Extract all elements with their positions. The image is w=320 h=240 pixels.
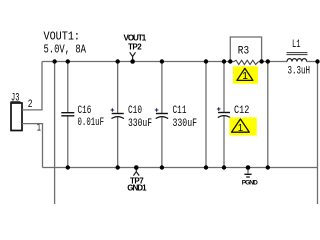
capacitor C12 (polarized) bbox=[217, 62, 249, 168]
node dot R3 left bbox=[228, 59, 232, 63]
wire vertical x=267.8 bbox=[267, 62, 269, 168]
resistor R3 bbox=[234, 46, 259, 65]
svg-text:TP2: TP2 bbox=[128, 43, 142, 52]
node dot x=267.8 bottom bbox=[266, 165, 270, 169]
svg-text:0.01uF: 0.01uF bbox=[78, 117, 105, 129]
node dot C12 bottom bbox=[222, 165, 226, 169]
test point TP2 VOUT1 bbox=[124, 34, 147, 64]
node dot x=267.8 top bbox=[266, 59, 270, 63]
test point TP7 GND1 bbox=[127, 165, 147, 193]
node dot L1 right bbox=[315, 59, 319, 63]
ground PGND bbox=[242, 165, 258, 186]
node dot C10 bottom bbox=[116, 165, 120, 169]
svg-text:GND1: GND1 bbox=[127, 184, 147, 193]
wire vertical branch going off-sheet at x=54.6 bbox=[54, 62, 56, 205]
wire top rail VOUT1 bbox=[42, 61, 318, 63]
node dot x=206 bottom bbox=[204, 165, 208, 169]
svg-text:330uF: 330uF bbox=[128, 118, 152, 130]
svg-text:C12: C12 bbox=[234, 105, 249, 117]
wire J3 pin1 to bottom rail bbox=[22, 124, 43, 168]
svg-text:330uF: 330uF bbox=[173, 118, 198, 130]
warning flag 1 at R3 (yellow highlight) bbox=[233, 66, 258, 84]
node dot top rail x=54.6 bbox=[52, 59, 56, 63]
svg-text:1: 1 bbox=[37, 123, 41, 135]
node dot C11 bottom bbox=[160, 165, 164, 169]
wire R3 bypass loop bbox=[230, 37, 261, 62]
svg-text:1: 1 bbox=[242, 71, 248, 82]
node dot x=206 top bbox=[204, 59, 208, 63]
node dot C10 top bbox=[116, 59, 120, 63]
node dot C16 bottom bbox=[66, 165, 70, 169]
svg-text:R3: R3 bbox=[238, 46, 249, 58]
wire vertical right edge x=317.5 going off-sheet bbox=[317, 62, 319, 205]
svg-text:C11: C11 bbox=[173, 105, 187, 117]
node dot C11 top bbox=[160, 59, 164, 63]
node dot C16 top bbox=[66, 59, 70, 63]
net label VOUT1: 5.0V, 8A bbox=[44, 29, 87, 56]
svg-text:L1: L1 bbox=[292, 39, 301, 51]
wire J3 pin2 to top rail bbox=[22, 62, 42, 110]
node dot C12 top bbox=[222, 59, 226, 63]
svg-text:C10: C10 bbox=[128, 105, 142, 117]
capacitor C10 330uF (polarized) bbox=[111, 62, 152, 168]
connector J3 bbox=[11, 93, 23, 131]
inductor L1 3.3uH bbox=[287, 39, 311, 78]
svg-text:VOUT1:: VOUT1: bbox=[44, 29, 81, 43]
wire plain vertical x=206 bbox=[205, 62, 207, 168]
node dot R3 right bbox=[259, 59, 263, 63]
wire bottom rail GND1 bbox=[43, 167, 318, 169]
svg-text:1: 1 bbox=[238, 123, 243, 134]
svg-text:PGND: PGND bbox=[242, 179, 258, 186]
svg-text:2: 2 bbox=[28, 99, 33, 111]
capacitor C16 0.01uF bbox=[61, 62, 104, 168]
svg-text:VOUT1: VOUT1 bbox=[124, 34, 147, 43]
svg-text:3.3uH: 3.3uH bbox=[288, 66, 311, 78]
svg-text:C16: C16 bbox=[78, 105, 92, 117]
warning flag 1 at C12 (yellow highlight) bbox=[229, 117, 256, 135]
capacitor C11 330uF (polarized) bbox=[155, 62, 197, 168]
svg-text:5.0V, 8A: 5.0V, 8A bbox=[44, 42, 87, 56]
